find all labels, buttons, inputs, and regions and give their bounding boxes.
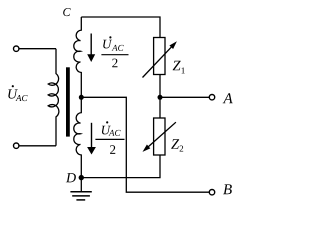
label B [223, 184, 232, 194]
wire node A to Z2 [159, 97, 161, 118]
label U_AC/2 lower [95, 121, 124, 154]
node A junction dot [158, 95, 163, 100]
Z2 variable arrow [147, 122, 176, 147]
wire node A to terminal A [160, 96, 209, 98]
center tap junction dot [79, 95, 84, 100]
primary winding L1 [48, 49, 59, 146]
terminal B [209, 190, 214, 195]
impedance Z2 box [154, 118, 165, 155]
impedance Z1 box [154, 38, 165, 75]
wire center tap to terminal B [81, 97, 209, 192]
wire Z2 to D net [81, 155, 160, 178]
terminal bottom-left [14, 143, 19, 148]
ground [70, 178, 91, 200]
terminal top-left [14, 46, 19, 51]
Z1 variable arrow [143, 46, 173, 77]
wire Z1 to node A [159, 75, 161, 98]
wire C to Z1 [81, 17, 160, 38]
secondary winding L2 (center-tapped) [74, 17, 82, 178]
wire bottom input [19, 145, 56, 147]
label U_AC/2 upper [101, 36, 128, 67]
transformer core [66, 67, 70, 136]
label C [63, 8, 70, 16]
arrow U_AC/2 upper [87, 34, 95, 63]
arrow U_AC/2 lower [87, 123, 96, 155]
label Z2 [171, 139, 183, 151]
terminal A [209, 95, 214, 100]
label A [223, 93, 233, 103]
label D [66, 173, 76, 182]
label Z1 [173, 61, 185, 74]
wire top input [19, 48, 56, 50]
label U_AC source [8, 85, 27, 101]
node D junction dot [79, 175, 84, 180]
